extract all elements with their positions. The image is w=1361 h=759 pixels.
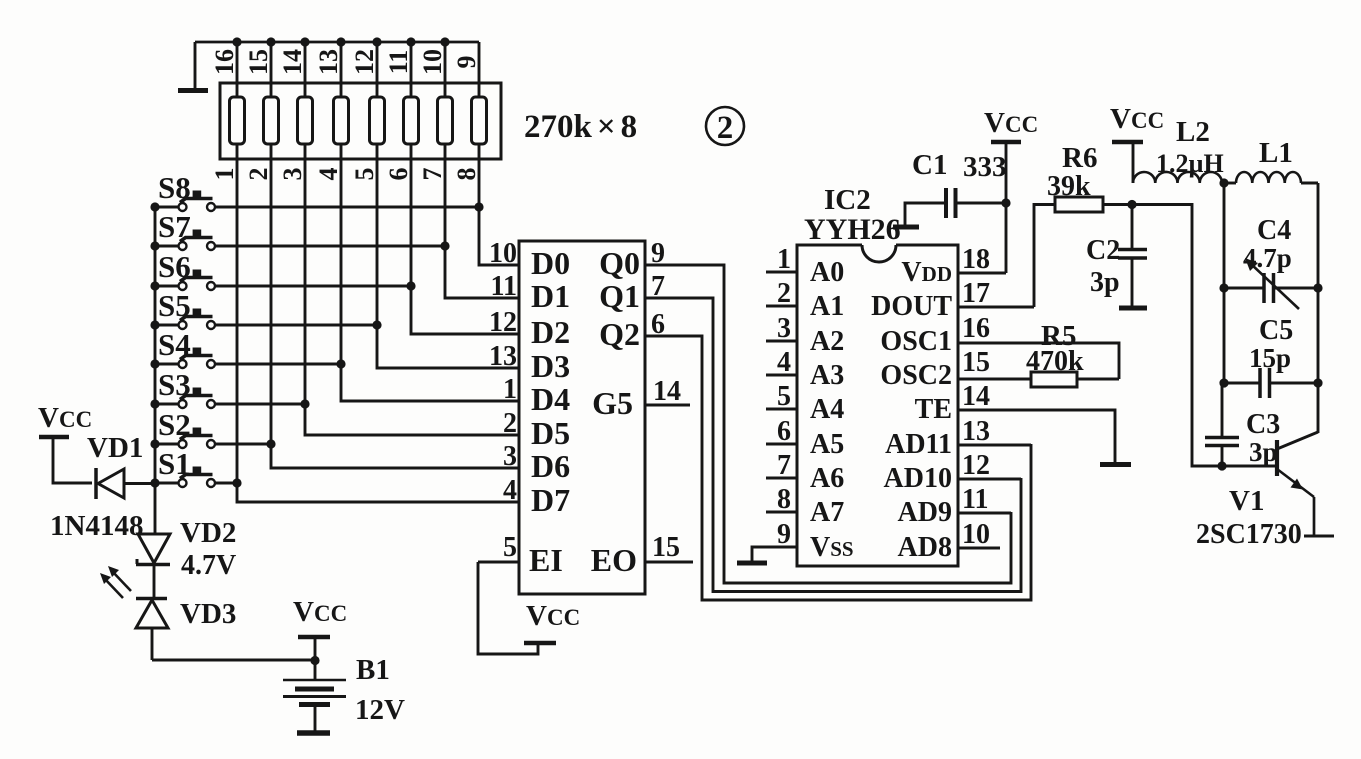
svg-text:AD9: AD9 <box>898 497 952 528</box>
svg-text:V1: V1 <box>1229 485 1264 517</box>
svg-text:B1: B1 <box>356 654 390 686</box>
wire: S1 to column 1 <box>215 478 242 487</box>
IC1 pin 10 label / D0 <box>489 238 570 281</box>
svg-text:5: 5 <box>350 168 379 181</box>
IC1 Q1 pin 7 stub <box>599 271 665 314</box>
IC1 pin 12 label / D2 <box>489 307 570 350</box>
wire: column pin 1 down to D7 <box>237 144 519 502</box>
IC1 Q0 pin 9 stub <box>599 238 665 281</box>
wire: S8 to column 8 <box>215 202 484 211</box>
svg-text:VD1: VD1 <box>87 432 143 464</box>
svg-text:VCC: VCC <box>38 402 92 434</box>
wire: S2 to column 2 <box>215 439 276 448</box>
IC2 pin 16 OSC1 <box>880 313 990 357</box>
svg-text:A3: A3 <box>810 360 844 391</box>
svg-text:VCC: VCC <box>1110 103 1164 135</box>
svg-text:2: 2 <box>503 408 517 439</box>
IC1 pin 13 label / D3 <box>489 341 570 384</box>
IC2 pin 9 Vss <box>777 519 854 563</box>
svg-text:4: 4 <box>314 168 343 181</box>
svg-text:3: 3 <box>278 168 307 181</box>
svg-text:1: 1 <box>503 374 517 405</box>
wire: TE pin14 to ground <box>958 410 1115 462</box>
svg-text:A1: A1 <box>810 291 844 322</box>
svg-text:17: 17 <box>962 278 990 309</box>
LED VD3 <box>100 566 236 660</box>
svg-text:13: 13 <box>489 341 517 372</box>
inductor L2 1.2uH <box>1133 116 1224 183</box>
svg-text:13: 13 <box>314 49 343 75</box>
svg-text:VD2: VD2 <box>180 517 236 549</box>
svg-text:470k: 470k <box>1026 346 1084 377</box>
svg-text:A2: A2 <box>810 326 844 357</box>
Vcc symbol for EI <box>478 562 580 654</box>
svg-text:14: 14 <box>962 381 990 412</box>
figure number (2) <box>706 107 744 146</box>
wire: S4 to column 4 <box>215 359 346 368</box>
svg-text:C1: C1 <box>912 149 947 181</box>
svg-text:C4: C4 <box>1257 215 1291 246</box>
svg-text:2SC1730: 2SC1730 <box>1196 519 1302 550</box>
svg-text:D0: D0 <box>531 245 570 281</box>
svg-text:1N4148: 1N4148 <box>50 510 143 542</box>
svg-text:10: 10 <box>418 49 447 75</box>
IC2 pin 5 A4 <box>766 381 844 425</box>
IC2 pin 1 A0 <box>766 244 844 288</box>
capacitor C3 3p <box>1205 383 1280 471</box>
svg-text:15: 15 <box>962 347 990 378</box>
svg-text:VCC: VCC <box>526 600 580 632</box>
IC1 EO pin 15 stub (unconnected) <box>591 532 693 578</box>
battery B1 12V <box>283 654 405 733</box>
svg-text:2: 2 <box>244 168 273 181</box>
svg-text:2: 2 <box>717 110 734 146</box>
svg-text:D7: D7 <box>531 482 570 518</box>
svg-text:2: 2 <box>777 278 791 309</box>
wire: VD3 to battery <box>152 656 320 665</box>
ground for IC2 Vss pin 9 <box>737 547 797 563</box>
wire: S5 to column 5 <box>215 320 382 329</box>
svg-text:L1: L1 <box>1259 137 1293 169</box>
switch S1 <box>150 446 215 488</box>
svg-text:3p: 3p <box>1090 267 1120 298</box>
IC1 G5 pin 14 stub (unconnected) <box>592 376 690 421</box>
wire: Q0 to AD bus <box>645 265 1011 583</box>
IC2 pin 7 A6 <box>766 450 844 494</box>
pin numbers 16..9 (rotated) <box>210 49 481 75</box>
wire: column pin 4 down to D4 <box>341 144 519 401</box>
svg-text:OSC1: OSC1 <box>880 326 952 357</box>
svg-text:1.2µH: 1.2µH <box>1156 149 1224 178</box>
IC1 pin 1 label / D4 <box>503 374 570 417</box>
wire: R6 node to transistor base <box>1132 205 1277 467</box>
resistor network RN1 270k x8 body <box>220 83 501 159</box>
svg-text:8: 8 <box>777 484 791 515</box>
svg-text:VDD: VDD <box>901 257 952 288</box>
IC2 pin 18 VDD <box>901 244 990 288</box>
svg-text:D1: D1 <box>531 278 570 314</box>
svg-text:4: 4 <box>777 347 791 378</box>
IC1 pin 5 EI <box>478 532 563 578</box>
svg-text:A7: A7 <box>810 497 844 528</box>
pin numbers 1..8 (rotated) <box>210 168 481 181</box>
svg-text:D6: D6 <box>531 448 570 484</box>
svg-text:14: 14 <box>278 49 307 75</box>
capacitor C2 3p <box>1086 200 1147 308</box>
svg-text:YYH26: YYH26 <box>804 213 901 246</box>
svg-text:DOUT: DOUT <box>871 291 952 322</box>
svg-text:4.7V: 4.7V <box>181 550 236 581</box>
Vcc symbol (top, at C1) <box>984 107 1038 203</box>
svg-text:8: 8 <box>452 168 481 181</box>
svg-text:6: 6 <box>777 416 791 447</box>
IC2 pin 17 DOUT <box>871 278 990 322</box>
wire: S6 to column 6 <box>215 281 416 290</box>
wire: switch common bus (left) <box>154 207 157 534</box>
Vcc symbol (left, at VD1) <box>38 402 92 483</box>
IC2 pin 15 OSC2 <box>880 347 990 391</box>
zener diode VD2 4.7V <box>136 517 236 598</box>
svg-text:A4: A4 <box>810 394 844 425</box>
IC1 Q2 pin 6 stub <box>599 309 665 352</box>
diode VD1 1N4148 <box>50 432 155 542</box>
junction L2/L1 node <box>1219 178 1236 187</box>
IC2 pin 14 TE <box>915 381 990 425</box>
svg-text:OSC2: OSC2 <box>880 360 952 391</box>
switch S6 <box>150 249 215 291</box>
wire: column pin 5 down to D3 <box>377 144 519 368</box>
svg-text:VSS: VSS <box>810 532 854 563</box>
inductor L1 <box>1236 137 1318 183</box>
svg-text:6: 6 <box>384 168 413 181</box>
wire: S3 to column 3 <box>215 399 310 408</box>
IC2 YYH26 box with notch <box>797 184 958 566</box>
ground (top-left, resistor network common) <box>178 42 208 91</box>
svg-text:D3: D3 <box>531 348 570 384</box>
svg-text:10: 10 <box>489 238 517 269</box>
svg-text:Q0: Q0 <box>599 245 640 281</box>
svg-text:12: 12 <box>350 49 379 75</box>
svg-text:333: 333 <box>963 151 1007 183</box>
svg-text:VCC: VCC <box>984 107 1038 139</box>
IC2 pin 8 A7 <box>766 484 844 528</box>
svg-text:EI: EI <box>529 542 563 578</box>
IC2 pin 2 A1 <box>766 278 844 322</box>
wire: AD11 pin 13 stub <box>958 444 1031 447</box>
svg-text:C5: C5 <box>1259 315 1293 346</box>
svg-text:1: 1 <box>777 244 791 275</box>
svg-text:3p: 3p <box>1249 437 1278 467</box>
Vcc symbol (top right, at L2) <box>1110 103 1164 183</box>
transistor V1 2SC1730 <box>1196 432 1334 550</box>
value label 270k x 8 <box>524 109 637 145</box>
wire: Vcc down to VDD pin 18 <box>1001 198 1010 273</box>
svg-text:12: 12 <box>489 307 517 338</box>
wire: left rail L2 node down <box>1223 183 1226 383</box>
IC2 pin 3 A2 <box>766 313 844 357</box>
IC2 pin 10 AD8 <box>898 519 990 563</box>
svg-text:Q2: Q2 <box>599 316 640 352</box>
resistor R6 39k <box>1034 142 1132 307</box>
svg-text:7: 7 <box>418 168 447 181</box>
svg-text:D2: D2 <box>531 314 570 350</box>
svg-text:11: 11 <box>491 271 517 302</box>
svg-text:16: 16 <box>210 49 239 75</box>
svg-text:12V: 12V <box>355 694 405 726</box>
IC1 pin 4 label / D7 <box>503 475 570 518</box>
svg-text:R6: R6 <box>1062 142 1097 174</box>
IC2 pin 13 AD11 <box>885 416 990 460</box>
svg-text:11: 11 <box>962 484 988 515</box>
wire: OSC1 pin16 to R5 <box>958 343 1119 379</box>
svg-text:3: 3 <box>503 441 517 472</box>
svg-text:AD8: AD8 <box>898 532 952 563</box>
IC2 pin 11 AD9 <box>898 484 989 528</box>
svg-text:270k×8: 270k×8 <box>524 109 637 145</box>
svg-text:L2: L2 <box>1176 116 1210 148</box>
svg-text:14: 14 <box>653 376 681 407</box>
wire: column pin 7 down to D1 <box>445 144 519 298</box>
wire: DOUT pin17 stub <box>958 306 1034 309</box>
junction dots on top bus <box>232 37 449 46</box>
svg-text:9: 9 <box>452 56 481 69</box>
wire: column pin 6 down to D2 <box>411 144 519 334</box>
switch S5 <box>150 288 215 330</box>
wire: column pin 3 down to D5 <box>305 144 519 435</box>
svg-text:16: 16 <box>962 313 990 344</box>
wires: resistor network top leads <box>237 42 479 97</box>
wire: column pin 8 down to D0 <box>479 144 519 265</box>
switch S2 <box>150 407 215 449</box>
svg-text:15: 15 <box>652 532 680 563</box>
wire: right rail down from L1 <box>1317 183 1320 433</box>
IC1 encoder box <box>519 241 645 594</box>
svg-text:9: 9 <box>777 519 791 550</box>
IC2 pin 4 A3 <box>766 347 844 391</box>
svg-text:11: 11 <box>384 50 413 75</box>
svg-text:VCC: VCC <box>293 596 347 628</box>
ground (TE) <box>1100 462 1131 467</box>
svg-text:13: 13 <box>962 416 990 447</box>
capacitor C4 4.7p (variable) <box>1219 215 1322 309</box>
resistor R5 470k <box>1026 320 1119 387</box>
Vcc symbol (at battery) <box>293 596 347 679</box>
svg-text:G5: G5 <box>592 385 633 421</box>
IC1 pin 11 label / D1 <box>491 271 571 314</box>
svg-text:12: 12 <box>962 450 990 481</box>
IC2 pin 6 A5 <box>766 416 844 460</box>
svg-text:C2: C2 <box>1086 235 1120 266</box>
switch S3 <box>150 367 215 409</box>
wire: S7 to column 7 <box>215 241 450 250</box>
wire: VDD pin18 stub <box>958 272 1006 275</box>
svg-text:15: 15 <box>244 49 273 75</box>
wire: Q1 to AD bus <box>645 298 1021 592</box>
svg-text:18: 18 <box>962 244 990 275</box>
IC1 pin 3 label / D6 <box>503 441 570 484</box>
IC1 pin 2 label / D5 <box>503 408 570 451</box>
svg-text:D5: D5 <box>531 415 570 451</box>
svg-text:VD3: VD3 <box>180 598 236 630</box>
wire: AD8 pin10 stub (unconnected) <box>958 547 1000 550</box>
svg-text:A6: A6 <box>810 463 844 494</box>
svg-text:TE: TE <box>915 394 952 425</box>
IC2 pin 12 AD10 <box>884 450 990 494</box>
svg-text:AD10: AD10 <box>884 463 952 494</box>
svg-text:C3: C3 <box>1246 409 1280 440</box>
svg-text:10: 10 <box>962 519 990 550</box>
wire: AD9 pin 11 stub <box>958 512 1011 515</box>
svg-text:5: 5 <box>503 532 517 563</box>
svg-text:3: 3 <box>777 313 791 344</box>
wire: OSC2 pin15 stub <box>958 378 1031 381</box>
svg-text:A5: A5 <box>810 429 844 460</box>
svg-text:A0: A0 <box>810 257 844 288</box>
switch S7 <box>150 209 215 251</box>
svg-text:Q1: Q1 <box>599 278 640 314</box>
svg-text:D4: D4 <box>531 381 570 417</box>
wire: column pin 2 down to D6 <box>271 144 519 468</box>
svg-text:4: 4 <box>503 475 517 506</box>
wire: AD10 pin 12 stub <box>958 478 1021 481</box>
svg-text:IC2: IC2 <box>824 184 871 216</box>
svg-text:5: 5 <box>777 381 791 412</box>
switch S4 <box>150 327 215 369</box>
capacitor C5 15p <box>1219 315 1322 398</box>
switch S8 <box>150 170 215 212</box>
svg-text:EO: EO <box>591 542 637 578</box>
wire: Q2 to AD bus <box>645 336 1031 600</box>
svg-text:1: 1 <box>210 168 239 181</box>
capacitor C1 333 <box>893 149 1007 227</box>
svg-text:AD11: AD11 <box>885 429 952 460</box>
svg-text:7: 7 <box>777 450 791 481</box>
wire: top bus of resistor network <box>195 41 479 44</box>
